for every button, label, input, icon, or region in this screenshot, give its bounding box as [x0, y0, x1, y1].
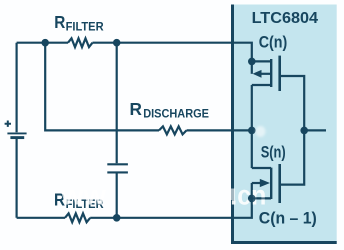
svg-text:LTC6804: LTC6804 — [252, 10, 319, 27]
svg-text:S(n): S(n) — [261, 143, 286, 161]
svg-text:FILTER: FILTER — [66, 20, 104, 34]
svg-text:C(n): C(n) — [259, 33, 288, 51]
svg-text:R: R — [54, 13, 65, 32]
svg-text:R: R — [130, 99, 143, 119]
svg-text:DISCHARGE: DISCHARGE — [143, 107, 209, 121]
svg-text:C(n – 1): C(n – 1) — [259, 210, 317, 228]
svg-text:ww: ww — [60, 180, 106, 211]
svg-text:.cn: .cn — [230, 180, 266, 211]
